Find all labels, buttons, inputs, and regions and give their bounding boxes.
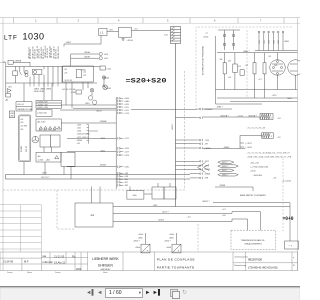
switch S1 box [99, 29, 107, 36]
terminal box X2 [262, 133, 274, 139]
svg-text:-W900A: -W900A [100, 120, 108, 123]
wire bus -W84 [216, 103, 263, 105]
rotated terminal labels [259, 40, 280, 44]
ground triangle in A5 [55, 156, 59, 159]
horn H10 [99, 52, 102, 55]
svg-text:+X1: +X1 [228, 77, 233, 79]
svg-text:-W6: -W6 [124, 179, 127, 181]
svg-text:2: 2 [271, 117, 273, 119]
box -100 [127, 191, 144, 200]
title block verticals [21, 258, 23, 271]
dashed zone boundary bottom-left L [3, 182, 184, 229]
svg-text:+S1: +S1 [77, 143, 80, 145]
svg-text:p: p [293, 257, 294, 259]
svg-text:+X20: +X20 [205, 140, 209, 142]
svg-text:=S20: =S20 [203, 37, 209, 39]
svg-text:+S20,S1,S1,S3: +S20,S1,S1,S3 [77, 134, 90, 136]
svg-text:-H10: -H10 [104, 54, 108, 56]
svg-text:+We0: +We0 [138, 234, 143, 236]
connector +S11 [116, 106, 118, 108]
wire row y166.3 [67, 166, 116, 168]
svg-text:≈+WE: ≈+WE [0, 62, 6, 64]
wire left L drop [215, 36, 217, 104]
motor M1 [270, 60, 286, 76]
svg-text:BASE PARTIE TOURNANTE: BASE PARTIE TOURNANTE [240, 194, 267, 197]
connector +S13 [116, 112, 118, 114]
battery G1 [6, 94, 11, 98]
svg-text:S01 S2: S01 S2 [26, 146, 28, 152]
svg-text:-R1: -R1 [228, 60, 232, 62]
connector +S30 [116, 166, 118, 168]
svg-text:3: 3 [78, 19, 80, 23]
svg-text:+X1: +X1 [258, 79, 263, 81]
wire stub W898 [215, 187, 253, 191]
contactor block K6 [51, 135, 60, 147]
wire bus -W870 [213, 202, 290, 204]
wire F1 to bus [13, 61, 30, 63]
svg-text:-C100: -C100 [71, 92, 76, 94]
svg-text:INTERRUPTEUR PRINCIPAL: INTERRUPTEUR PRINCIPAL [202, 45, 205, 75]
svg-text:+X170: +X170 [250, 171, 256, 173]
svg-text:+We0 ?: +We0 ? [164, 241, 171, 243]
ground symbol +X100 [122, 39, 125, 41]
svg-text:19.Abr.12: 19.Abr.12 [54, 260, 66, 264]
svg-text:-A5: -A5 [38, 155, 41, 158]
labels buses [153, 181, 291, 222]
ground triangle small [103, 84, 105, 86]
wire fuse top link [218, 29, 240, 31]
svg-text:+X21: +X21 [124, 138, 128, 140]
svg-text:EHINGEN: EHINGEN [98, 264, 113, 268]
svg-text:aW2: aW2 [76, 267, 82, 271]
svg-text:-W11 ?: -W11 ? [222, 170, 228, 172]
motor M2 clipped [288, 60, 304, 76]
svg-text:L 1: L 1 [100, 31, 104, 35]
svg-text:-W17 ?: -W17 ? [162, 212, 169, 214]
svg-text:-W10: -W10 [101, 138, 106, 140]
svg-text:+S20A +S20: +S20A +S20 [37, 101, 48, 104]
svg-text:-A2: -A2 [5, 99, 9, 102]
wire bend W11 down [289, 203, 291, 241]
svg-text:+S28: +S28 [124, 155, 128, 157]
box -41 [152, 187, 164, 199]
svg-text:+S26: +S26 [77, 130, 81, 132]
title block horizontal mid lines [41, 257, 87, 259]
wire risers to header boxes [23, 83, 25, 102]
svg-text:-W1 X1 ?: -W1 X1 ? [41, 177, 50, 179]
svg-text:+S20C +S20: +S20C +S20 [37, 107, 48, 109]
svg-text:-W106: -W106 [158, 220, 165, 222]
svg-text:ENGINE TR CAB: ENGINE TR CAB [18, 108, 33, 111]
svg-text:(→X750/+X450/+X40: (→X750/+X450/+X40 [250, 167, 268, 169]
svg-text:-W10H +X5.18: -W10H +X5.18 [58, 47, 60, 59]
svg-text:+S13: +S13 [124, 113, 128, 115]
svg-text:-W84 ?: -W84 ? [216, 107, 223, 109]
cable symbols group [218, 161, 239, 177]
svg-text:(→W74: (→W74 [245, 147, 253, 149]
wire S1 down [100, 36, 102, 45]
wire bus -W800 [203, 148, 245, 150]
export icon [170, 289, 178, 297]
svg-text:-E100: -E100 [104, 78, 109, 80]
cable -W71 [218, 161, 234, 164]
svg-text:+X10: +X10 [272, 95, 278, 97]
svg-text:Norm: Norm [103, 271, 108, 274]
wire bus y101.6 [230, 101, 298, 103]
top-left terminal label stacks [27, 46, 59, 59]
svg-text:=S20+S20: =S20+S20 [126, 77, 167, 84]
small junction box right [285, 241, 299, 249]
svg-text:-W84: -W84 [284, 41, 290, 43]
connector -W7a [201, 143, 203, 145]
stacked cable labels block [77, 120, 108, 166]
svg-text:+W2: +W2 [10, 116, 14, 118]
svg-text:-W1: -W1 [8, 86, 13, 88]
svg-text:+We0: +We0 [135, 247, 140, 249]
wire bus -W200A [203, 116, 260, 118]
svg-text:5: 5 [167, 19, 169, 23]
svg-text:-G100: -G100 [81, 69, 86, 71]
next page button [145, 290, 150, 300]
svg-text:TRANSMISSION BASCUL-: TRANSMISSION BASCUL- [241, 239, 266, 242]
lamp E101 [103, 85, 108, 90]
svg-text:-W60: -W60 [138, 237, 143, 239]
wire into A1 top 1 [91, 187, 93, 204]
svg-text:-W8: -W8 [205, 178, 208, 180]
connector +W4 [116, 175, 118, 177]
svg-text:+S30: +S30 [124, 167, 128, 169]
svg-text:-W101: -W101 [172, 123, 174, 130]
svg-text:→X2: →X2 [276, 137, 281, 139]
svg-text:+X09: +X09 [124, 104, 128, 106]
svg-text:+W20 +W20 +W20 +W20: +W20 +W20 +W20 +W20 [38, 130, 56, 132]
wire branch w71 [240, 142, 244, 144]
wire bus -W86 [217, 52, 298, 54]
horn H11 [99, 57, 102, 60]
svg-text:-W7: -W7 [205, 144, 208, 146]
svg-text:-W800: -W800 [205, 173, 211, 175]
svg-text:-W81: -W81 [287, 98, 293, 100]
svg-text:-X54: -X54 [273, 40, 275, 44]
connector +S28 [116, 154, 118, 156]
cable -W11 [218, 169, 234, 172]
svg-text:PARTIE TOURNANTE: PARTIE TOURNANTE [157, 265, 195, 269]
connector X16 [100, 66, 105, 70]
svg-text:-W101: -W101 [96, 110, 102, 112]
aux box right of A5 [61, 152, 75, 166]
svg-text:-W71 ?: -W71 ? [222, 162, 228, 164]
connector +W3 [116, 172, 118, 174]
fuse F20 pair [224, 30, 226, 50]
svg-text:-W86 ?: -W86 ? [243, 51, 250, 53]
svg-text:+Y1,+Y2,+Y4,+Y6,+X8: +Y1,+Y2,+Y4,+Y6,+X8 [247, 128, 265, 130]
svg-text:sta: sta [43, 254, 47, 258]
svg-text:+We0: +We0 [169, 234, 174, 236]
relay K20 [233, 64, 238, 73]
svg-text:-W60: -W60 [169, 237, 174, 239]
svg-text:-E1 -E2 -K7 -S9: -E1 -E2 -K7 -S9 [62, 89, 75, 91]
svg-text:M.F: M.F [24, 260, 29, 264]
connector -W200 [201, 168, 203, 170]
svg-text:LIEBHERR WERK: LIEBHERR WERK [92, 257, 119, 261]
svg-text:-X52: -X52 [264, 40, 266, 44]
wire bus -W10 [6, 174, 191, 176]
title block texts [3, 254, 82, 271]
lamp E100 [102, 76, 105, 79]
lamp E102 [90, 89, 94, 93]
transmission dashed box [231, 230, 276, 250]
first page button [86, 290, 95, 300]
relay K21 [240, 70, 244, 76]
frame left border [2, 18, 4, 271]
svg-text:982297000: 982297000 [248, 258, 262, 262]
plan title text [157, 258, 195, 270]
connector +W80 [116, 100, 118, 102]
labels right top block [216, 41, 292, 109]
svg-text:~ +: ~ + [289, 244, 293, 247]
svg-text:+S08: +S08 [124, 98, 128, 100]
dashed line to title block [197, 224, 199, 252]
fuse F1 [8, 60, 13, 64]
wire left verticals to frame [5, 175, 7, 180]
inner module G100 [76, 70, 81, 78]
connector -W8b [201, 177, 203, 179]
connector -W800b [201, 172, 203, 174]
box -42 [164, 187, 176, 199]
drawing number fields [235, 257, 249, 267]
svg-text:-X2: -X2 [245, 65, 249, 67]
svg-text:+S71,+S20: +S71,+S20 [77, 137, 86, 139]
svg-text:→0+0-(C3): →0+0-(C3) [281, 181, 291, 183]
connector arrow column mid [197, 108, 213, 180]
connector +X21 [116, 137, 118, 139]
viewer toolbar [0, 286, 300, 300]
wire horns left [71, 53, 99, 55]
bottom tiny column labels [7, 257, 296, 274]
svg-text:+WE0A: +WE0A [14, 60, 22, 63]
moulinet labels 1 [133, 234, 149, 252]
svg-text:21.04.95: 21.04.95 [3, 260, 14, 264]
wire into A1 top 2 [99, 187, 101, 204]
moulinet labels 2 [164, 234, 180, 252]
fuse F21 pair [233, 30, 235, 50]
svg-text:-W800: -W800 [223, 147, 230, 149]
cable destination labels [250, 162, 276, 179]
labels left column [10, 101, 56, 162]
tiny destination rows [247, 128, 292, 159]
comb bracket for stacked labels [87, 125, 99, 144]
wire vertical to bus [70, 54, 72, 66]
connector -W8 [116, 184, 118, 186]
wire vertical into transm 1 [259, 212, 261, 231]
svg-text:+S12: +S12 [124, 110, 128, 112]
capacitor C20 [253, 63, 256, 74]
svg-text:-1B: -1B [219, 59, 223, 61]
wire drops components [224, 53, 226, 63]
wire bus -W17 [113, 212, 260, 214]
wire console drops [65, 82, 67, 105]
wire -W900A [60, 109, 116, 111]
svg-text:+We0: +We0 [166, 247, 171, 249]
frame top ruler line lower [0, 22, 300, 24]
connector +S26 [116, 147, 118, 149]
svg-text:→D1: →D1 [186, 217, 191, 219]
svg-text:+W4: +W4 [124, 176, 128, 178]
svg-text:+A21: +A21 [46, 159, 50, 162]
page number field [105, 288, 143, 298]
svg-text:6: 6 [214, 19, 216, 23]
wire A5 to bus [23, 162, 25, 175]
svg-text:-W8: -W8 [124, 185, 127, 187]
wire bus y98 [217, 97, 298, 99]
connector +X20a [201, 139, 203, 141]
svg-text:L-M1: L-M1 [10, 113, 14, 115]
terminal box X4 [260, 114, 273, 120]
connector -W74 [201, 164, 203, 166]
svg-text:(-W800: (-W800 [205, 148, 211, 150]
svg-text:-A1: -A1 [90, 213, 95, 217]
module A2 header box [16, 102, 32, 111]
wire bottom row [61, 104, 116, 106]
wire fringe below lower bus [30, 83, 58, 87]
svg-text:+S1: +S1 [64, 72, 67, 74]
wire drops to lower bus [29, 77, 31, 83]
svg-text:+S1: +S1 [20, 129, 23, 131]
wire bus -WE top [6, 65, 100, 67]
terminal strip X95 [171, 27, 181, 44]
connector +S12 [116, 109, 118, 111]
wire left vertical [5, 62, 7, 97]
svg-text:-E101: -E101 [106, 88, 111, 90]
svg-text:Datum: Datum [7, 271, 13, 274]
svg-text:-W800 ?: -W800 ? [222, 175, 229, 177]
wire -W84 link [203, 108, 232, 110]
wire vertical into transm 2 [247, 219, 249, 230]
module -A1 [75, 203, 113, 227]
relay K1 [13, 71, 18, 76]
svg-text:-M1: -M1 [274, 65, 278, 67]
svg-text:→+X13: →+X13 [236, 115, 244, 117]
svg-text:30 15 58: 30 15 58 [65, 80, 72, 82]
svg-text:→D5: →D5 [272, 177, 276, 179]
module A5 LM5 box [36, 119, 61, 131]
refresh icon [182, 289, 187, 300]
svg-text:-W900: -W900 [77, 140, 83, 142]
svg-text:+X11,-X12: +X11,-X12 [250, 162, 259, 164]
svg-text:-W10H: -W10H [84, 56, 91, 58]
svg-text:-X55: -X55 [278, 40, 280, 44]
wires from vertical bus to arrows [131, 110, 197, 178]
module S20A box [36, 110, 52, 117]
wire to terminal strip X95 [132, 29, 171, 31]
svg-text:→X660-W8: →X660-W8 [252, 175, 262, 177]
wire lamp drop [103, 79, 105, 84]
connector -W6 [116, 178, 118, 180]
svg-text:unknown: unknown [43, 260, 54, 264]
svg-text:(→W71: (→W71 [245, 143, 253, 145]
wire bus -W11 [113, 206, 290, 208]
svg-text:-X1: -X1 [268, 56, 272, 58]
svg-text:LTF1030: LTF1030 [4, 31, 45, 41]
rotated labels in tall module [21, 146, 28, 152]
relay K30 box [119, 28, 132, 38]
module S20 header box [36, 100, 61, 108]
wire bus lower [6, 82, 97, 84]
meter P2 [88, 96, 92, 100]
title block outline [0, 252, 298, 271]
svg-text:+Y1,+Y7,+Y3,+Y4,+W,+W10A,+X11,: +Y1,+Y7,+Y3,+Y4,+W,+W10A,+X11,+Y71/6,+W8… [247, 152, 290, 155]
connector column bracket [115, 97, 117, 189]
svg-text:Datum: Datum [55, 271, 61, 274]
svg-text:+LS20: +LS20 [38, 160, 44, 162]
svg-text:-W10: -W10 [85, 103, 90, 105]
svg-text:CHA ALIGNEMENT: CHA ALIGNEMENT [244, 243, 262, 246]
frame right border [297, 18, 299, 271]
connector bracket left [9, 111, 14, 118]
svg-text:-W1000: -W1000 [100, 165, 107, 167]
console box G1 [63, 66, 94, 82]
wire row y139.7 [67, 137, 116, 139]
svg-text:+W80: +W80 [124, 101, 129, 103]
module A5 LS20 box [36, 152, 61, 162]
ruler numbers [35, 19, 262, 23]
liebherr werk text [92, 257, 119, 271]
svg-text:PLAN DE COUPLAGE: PLAN DE COUPLAGE [157, 258, 195, 262]
warning triangles row [39, 126, 42, 129]
wire bus top right [255, 50, 298, 52]
svg-text:=0+0: =0+0 [283, 216, 294, 222]
svg-text:Bl.: Bl. [293, 265, 296, 267]
ruler ticks [14, 18, 284, 24]
svg-text:+S1+S1: +S1+S1 [17, 104, 24, 106]
svg-text:Zeichnungs Nr.: Zeichnungs Nr. [235, 257, 249, 259]
svg-text:LTD-MD-41-WG-001+001: LTD-MD-41-WG-001+001 [248, 266, 278, 270]
svg-text:21-21.05: 21-21.05 [54, 254, 65, 258]
cable fork split [176, 118, 210, 173]
capacitor C21 [263, 63, 266, 74]
labels +0 =S20 [203, 33, 209, 39]
svg-text:-W898: -W898 [219, 185, 226, 187]
wire between [107, 30, 119, 32]
svg-text:-X53: -X53 [269, 40, 271, 44]
svg-text:+S27: +S27 [124, 152, 128, 154]
wire row y152.3 [67, 151, 116, 153]
labels horn cluster [62, 51, 111, 112]
resistor R20 [223, 63, 226, 74]
svg-text:+S20B +S20: +S20B +S20 [37, 104, 48, 106]
svg-text:Bezeichnung: Bezeichnung [235, 265, 247, 267]
svg-text:-W1A -W1B: -W1A -W1B [34, 90, 45, 93]
svg-text:-W900A ?: -W900A ? [205, 108, 213, 111]
generator G100 [33, 69, 42, 74]
svg-text:-W200A ?: -W200A ? [220, 114, 230, 117]
wire -100 up to connector column [129, 187, 131, 191]
svg-text:+S21: +S21 [77, 127, 81, 129]
cable -W800 [218, 173, 239, 176]
svg-text:-X1: -X1 [83, 72, 86, 74]
svg-text:+S26: +S26 [124, 148, 128, 150]
moulinet symbol 2 [172, 233, 181, 253]
svg-text:-W7: -W7 [124, 182, 127, 184]
svg-text:-W870 ?: -W870 ? [202, 201, 210, 203]
diode V1 [7, 89, 11, 93]
svg-text:-X51: -X51 [259, 40, 261, 44]
meter P1 [25, 70, 28, 73]
svg-text:+X16: +X16 [106, 68, 110, 70]
svg-text:-W200 ?: -W200 ? [222, 166, 229, 168]
connector +S08 [116, 97, 118, 99]
svg-text:-G1: -G1 [64, 69, 67, 71]
